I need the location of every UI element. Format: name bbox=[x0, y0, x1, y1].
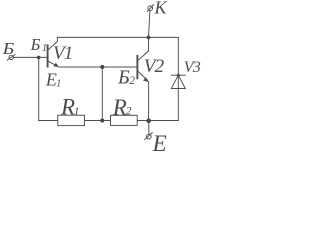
svg-text:1: 1 bbox=[42, 43, 47, 54]
node Б1 junction bbox=[37, 56, 41, 60]
wire right vertical bbox=[177, 37, 179, 120]
wire bottom rail bbox=[39, 120, 179, 122]
wire to E terminal bbox=[148, 121, 150, 135]
svg-text:Б: Б bbox=[117, 66, 130, 88]
svg-text:E: E bbox=[45, 70, 57, 90]
svg-text:2: 2 bbox=[129, 75, 135, 87]
svg-text:1: 1 bbox=[56, 78, 61, 89]
svg-text:Б: Б bbox=[30, 35, 41, 54]
node rail K junction bbox=[147, 36, 151, 40]
node junction bottom middle bbox=[100, 119, 104, 123]
svg-text:E: E bbox=[152, 131, 167, 156]
wire emitter V1 to base V2 bbox=[59, 66, 137, 68]
resistor R1 bbox=[58, 115, 85, 125]
svg-text:2: 2 bbox=[126, 106, 132, 118]
svg-text:K: K bbox=[154, 0, 168, 18]
svg-text:Б: Б bbox=[1, 39, 14, 58]
node junction bottom E bbox=[146, 119, 151, 124]
wire middle vertical bbox=[101, 67, 103, 121]
svg-text:V3: V3 bbox=[184, 59, 201, 76]
resistor R2 bbox=[111, 115, 138, 125]
terminal K bbox=[147, 5, 153, 12]
terminal Б bbox=[7, 55, 15, 61]
svg-text:1: 1 bbox=[74, 106, 80, 118]
transistor V1 bbox=[48, 37, 59, 67]
terminal E bbox=[145, 133, 153, 140]
wire left vertical bbox=[38, 57, 40, 120]
svg-text:R: R bbox=[60, 94, 75, 119]
svg-text:V1: V1 bbox=[53, 43, 73, 64]
wire base of V1 bbox=[13, 56, 47, 58]
svg-text:R: R bbox=[112, 95, 127, 120]
wire to K terminal bbox=[149, 10, 150, 37]
wire top rail bbox=[57, 36, 178, 38]
node junction emitter wire bbox=[100, 65, 104, 69]
svg-text:V2: V2 bbox=[144, 56, 165, 77]
diode V3 bbox=[171, 74, 185, 89]
transistor V2 bbox=[137, 37, 148, 120]
